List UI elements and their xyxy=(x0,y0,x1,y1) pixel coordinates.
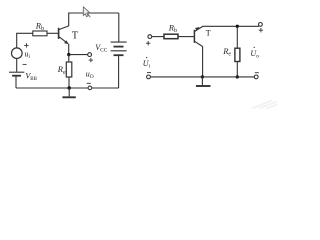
svg-text:T: T xyxy=(206,29,211,38)
wire: bottom rail (left circuit) xyxy=(16,87,119,89)
wire: R_b to base (right) xyxy=(178,36,194,38)
battery V_BB plates xyxy=(9,72,24,76)
node: collector/ground junction dot xyxy=(201,75,204,78)
svg-text:T: T xyxy=(72,31,78,42)
wire: V_BB to bottom rail corner xyxy=(15,76,17,88)
resistor R_e (left) xyxy=(66,62,72,77)
wire: source top to R_b (left branch up + horizontal) xyxy=(17,33,33,48)
wire: node E to output + terminal xyxy=(69,54,88,56)
terminal: input - (right circuit) xyxy=(147,75,151,79)
wire: source bottom to V_BB xyxy=(16,59,18,72)
transistor T (left) collector slant xyxy=(59,26,69,30)
wire: emitter top rail (right) xyxy=(203,25,259,27)
node: R_e bottom junction dot xyxy=(236,75,239,78)
resistor R_b (right) xyxy=(164,34,178,39)
battery V_CC plates xyxy=(111,42,127,55)
wire: collector down to bottom rail xyxy=(202,46,204,77)
minus sign above input bottom terminal (right circuit) xyxy=(147,72,151,74)
terminal: output - on bottom rail xyxy=(88,86,92,90)
watermark stripes bottom right (decorative) xyxy=(252,101,277,109)
transistor T (right) collector slant xyxy=(195,41,203,46)
wire: V_CC down to bottom rail xyxy=(118,55,120,88)
mouse cursor artifact on top rail xyxy=(83,7,90,18)
wire: R_e down to bottom rail (right) xyxy=(236,62,238,77)
wire: top rail xyxy=(68,12,119,14)
minus sign above output bottom (left circuit) xyxy=(87,82,91,84)
resistor R_b (left) xyxy=(33,31,47,36)
minus sign above output bottom terminal (right circuit) xyxy=(255,72,259,74)
label U_o phasor (right output) xyxy=(250,47,259,59)
wire: node E down to R_e xyxy=(68,55,70,62)
plus sign at source u_i xyxy=(24,43,28,47)
wire: top rail corner down to V_CC xyxy=(118,13,120,42)
source u_i circle xyxy=(11,48,22,59)
terminal: output + (left circuit) xyxy=(88,53,92,57)
node: top of R_e junction dot xyxy=(236,25,239,28)
wire: R_b to base xyxy=(47,32,58,34)
transistor T (left) base bar xyxy=(58,28,60,39)
wire: bottom rail (right circuit) xyxy=(150,76,254,78)
terminal: output - (right circuit) xyxy=(254,75,258,79)
minus sign below source u_i xyxy=(23,63,27,65)
wire: collector up xyxy=(68,13,70,27)
wire: junction down to R_e (right) xyxy=(236,26,238,48)
resistor R_e (right) xyxy=(235,48,240,61)
terminal: output + (right circuit) xyxy=(259,23,263,27)
wire: R_e to bottom rail xyxy=(68,77,70,88)
node E junction dot xyxy=(67,53,70,56)
plus sign below input terminal (right circuit) xyxy=(146,41,150,45)
plus sign at output top (left circuit) xyxy=(89,58,93,62)
wire: input to R_b (right) xyxy=(152,36,164,38)
label U_i phasor (right input) xyxy=(143,57,151,70)
transistor T (left) emitter slant with arrow xyxy=(59,37,68,44)
plus sign below output terminal (right circuit) xyxy=(259,28,263,32)
ground (left circuit) xyxy=(62,88,75,97)
transistor T (right) emitter slant with arrow xyxy=(195,26,203,31)
ground (right circuit) xyxy=(196,77,211,86)
ground junction dot xyxy=(68,86,71,89)
transistor T (right) base bar xyxy=(193,30,195,43)
wire: emitter down to node E xyxy=(68,44,70,55)
terminal: input + (right circuit) xyxy=(148,35,152,39)
